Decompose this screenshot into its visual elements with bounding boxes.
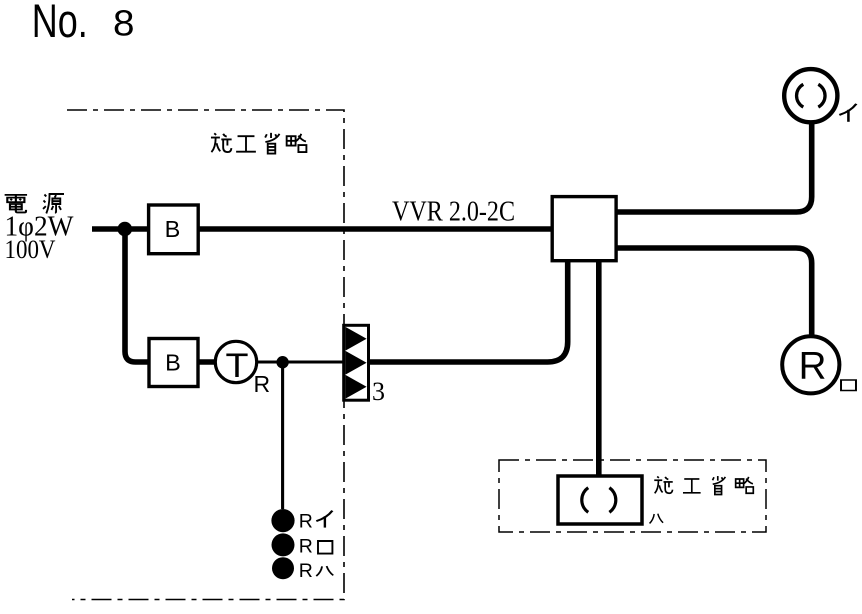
svg-text:T: T [226, 347, 249, 385]
svg-text:R: R [299, 560, 313, 582]
svg-text:100V: 100V [5, 235, 56, 264]
svg-text:VVR 2.0-2C: VVR 2.0-2C [392, 197, 515, 228]
svg-text:No.: No. [32, 0, 88, 47]
svg-text:8: 8 [113, 3, 135, 44]
svg-text:R: R [299, 535, 313, 557]
svg-text:B: B [165, 216, 181, 242]
svg-text:B: B [165, 350, 181, 376]
svg-text:R: R [299, 511, 313, 533]
svg-text:3: 3 [372, 377, 385, 406]
svg-text:R: R [254, 371, 271, 397]
svg-text:R: R [799, 344, 827, 387]
